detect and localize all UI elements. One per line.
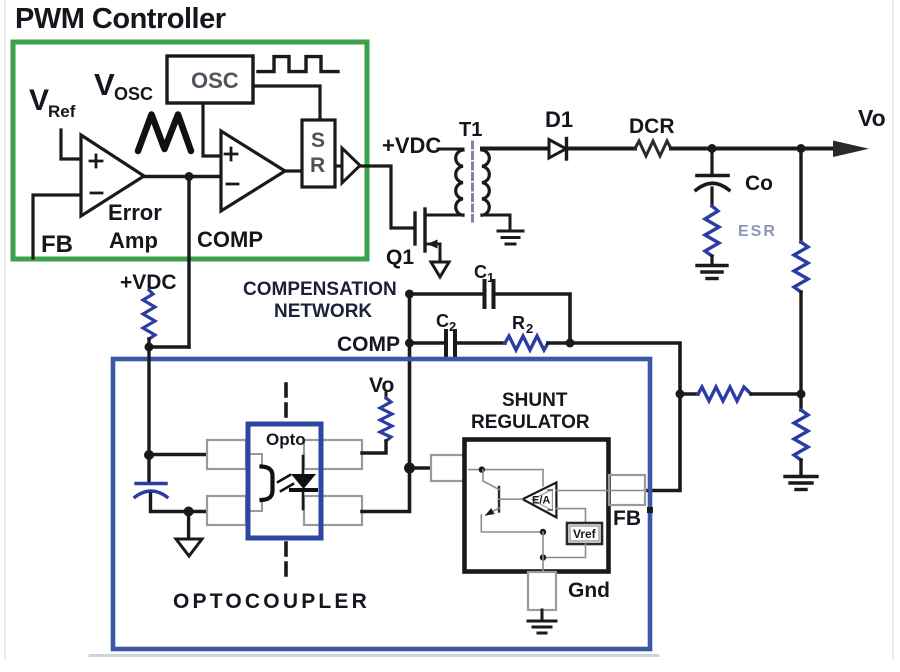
dashed line above opto — [284, 384, 288, 421]
svg-text:V: V — [29, 84, 49, 117]
wire C2 to R2 — [457, 341, 505, 344]
label C2 — [436, 311, 456, 334]
wire buffer to Q1 gate — [360, 166, 414, 228]
svg-text:ESR: ESR — [738, 223, 777, 240]
resistor +VDC bias — [143, 290, 155, 339]
svg-text:V: V — [94, 67, 115, 102]
LED opto — [302, 456, 305, 474]
capacitor Co — [697, 174, 728, 178]
wire lower divider to ground — [799, 460, 802, 475]
wire C1 right — [496, 294, 570, 343]
node FB wire dot — [647, 507, 653, 513]
label R2 — [512, 313, 533, 336]
wire pin1 inner lead — [246, 454, 262, 467]
transformer T1 secondary winding — [482, 150, 489, 215]
wire capacitor to ground node — [151, 494, 189, 512]
internal top rail — [469, 469, 543, 471]
wire node to shunt input pin — [410, 466, 432, 469]
node internal mid — [540, 529, 546, 535]
phototransistor — [262, 467, 273, 501]
svg-text:Ref: Ref — [48, 102, 76, 121]
op-amp EA — [523, 483, 557, 518]
svg-text:FB: FB — [41, 231, 73, 258]
svg-text:S: S — [311, 129, 325, 152]
svg-text:FB: FB — [613, 507, 641, 530]
svg-text:NETWORK: NETWORK — [274, 301, 372, 322]
wire COMP node down — [187, 177, 190, 348]
opto pin 1 upper left — [207, 440, 246, 469]
node C1 top junction — [405, 290, 414, 299]
wire S R latch to buffer — [335, 164, 342, 167]
PWM controller green box — [13, 42, 367, 259]
transistor Q1 MOSFET — [415, 209, 425, 251]
wire COMP to C2 — [410, 341, 444, 344]
opto package box — [248, 424, 321, 538]
wire D1 to DCR — [566, 147, 635, 151]
ground open triangle opto — [176, 539, 202, 556]
wire +VDC to T1 primary — [438, 148, 463, 151]
svg-text:REGULATOR: REGULATOR — [471, 412, 590, 433]
svg-text:OSC: OSC — [191, 68, 239, 93]
Q1 source arrow — [427, 243, 440, 246]
svg-text:Q1: Q1 — [386, 246, 414, 269]
wire node down and to opto pin 4 — [362, 468, 410, 512]
wire T1 secondary bottom to ground — [482, 215, 510, 230]
wire divider resistor to right rail — [751, 392, 801, 395]
wire T1 secondary to D1 — [482, 147, 549, 151]
wire FB net down from divider junction — [648, 394, 680, 491]
node divider junction top — [797, 144, 806, 153]
wire ESR to ground — [710, 256, 713, 264]
resistor Vo pullup — [385, 393, 388, 398]
buffer gate driver — [342, 148, 360, 183]
ground shunt — [528, 621, 556, 633]
svg-text:Amp: Amp — [109, 228, 158, 253]
oscillator box OSC — [167, 56, 253, 103]
ground T1 secondary — [498, 231, 523, 244]
svg-text:Opto: Opto — [266, 430, 306, 449]
resistor ESR — [705, 206, 719, 256]
op-amp comparator — [221, 131, 285, 211]
label COMPENSATION NETWORK — [243, 279, 397, 322]
wire OSC bottom to comparator + input — [203, 104, 221, 156]
label SHUNT REGULATOR — [471, 390, 590, 433]
resistor divider feed horizontal — [698, 387, 751, 401]
ground Q1 open triangle — [431, 262, 449, 277]
svg-text:T1: T1 — [459, 119, 482, 141]
wire node to opto pin 1 — [149, 453, 207, 456]
Gnd pin — [528, 572, 556, 610]
wire VRef to error amp + input — [61, 130, 81, 159]
Vref box — [567, 523, 602, 544]
wire error amp output to comparator with COMP node — [144, 175, 221, 178]
internal emitter wire — [481, 515, 543, 532]
wire Gnd pin to ground — [541, 610, 544, 620]
internal EA output to FB pin — [556, 490, 645, 492]
wire FB to error amp - input — [33, 195, 81, 258]
svg-text:C: C — [436, 311, 449, 331]
wire bias node down into opto box — [147, 347, 150, 455]
wire Co to ESR — [710, 188, 713, 206]
svg-text:Gnd: Gnd — [568, 579, 610, 602]
wire COMP line joins bias node — [149, 345, 189, 348]
svg-text:2: 2 — [526, 321, 533, 336]
optocoupler blue outer box — [113, 359, 650, 649]
node anode junction — [144, 450, 154, 460]
wire junction to divider resistor — [680, 392, 698, 395]
wire junction down to lower divider — [799, 394, 802, 410]
wire junction to Co — [710, 149, 713, 175]
svg-text:PWM Controller: PWM Controller — [15, 3, 226, 35]
transformer T1 primary winding — [456, 150, 463, 215]
node R2 C1 junction — [566, 339, 575, 348]
S R latch box — [302, 120, 335, 187]
label VOSC — [94, 67, 153, 104]
internal gnd stem — [542, 532, 544, 572]
diode D1 — [549, 140, 566, 159]
svg-text:E/A: E/A — [532, 495, 550, 507]
light rays — [278, 475, 293, 491]
FB pin — [609, 475, 645, 505]
internal wire rail to EA minus — [542, 470, 544, 486]
label Error Amp — [108, 200, 162, 253]
transformer T1 core — [471, 142, 474, 221]
svg-text:R: R — [310, 154, 325, 177]
ground divider — [785, 477, 817, 490]
svg-text:Vo: Vo — [369, 374, 394, 397]
capacitor C1 — [485, 281, 494, 307]
output arrow Vo — [833, 141, 869, 158]
svg-text:DCR: DCR — [629, 115, 675, 138]
shunt input pin — [431, 455, 465, 481]
wire DCR to output rail — [671, 147, 836, 151]
node Co junction — [708, 144, 717, 153]
svg-text:COMPENSATION: COMPENSATION — [243, 279, 397, 300]
internal Vref bottom wire — [543, 544, 586, 558]
resistor divider lower — [794, 410, 808, 460]
svg-text:OSC: OSC — [114, 84, 153, 104]
wire node to opto pin 2 — [189, 510, 207, 513]
node divider mid junction right — [797, 390, 806, 399]
wire comparator to S R latch — [285, 169, 302, 172]
triangle waveform icon — [138, 115, 191, 152]
wire COMP net vertical node — [404, 463, 415, 474]
svg-text:COMP: COMP — [337, 333, 400, 356]
opto pin 4 lower right — [304, 496, 362, 525]
opto pin 3 upper right — [304, 440, 362, 469]
resistor divider upper — [794, 242, 808, 292]
wire divider upper to junction — [799, 292, 802, 394]
node bias junction — [145, 343, 154, 352]
capacitor opto filter — [136, 482, 166, 485]
wire Vo resistor to opto pin 3 — [362, 441, 386, 453]
node internal bottom — [540, 554, 546, 560]
wire C1 left — [410, 292, 482, 296]
svg-text:Vref: Vref — [573, 527, 597, 541]
wire OSC right to S R latch — [253, 86, 320, 120]
internal EA plus branch to Vref — [556, 509, 585, 523]
svg-text:Co: Co — [745, 172, 773, 195]
node COMP lower junction — [405, 339, 414, 348]
label VRef — [29, 84, 76, 121]
wire pin2 inner lead — [246, 499, 262, 511]
wire Q1 source down — [439, 244, 442, 261]
resistor R2 — [505, 336, 548, 350]
wire COMP net down to opto — [408, 294, 412, 468]
svg-text:Error: Error — [108, 200, 162, 225]
svg-text:R: R — [512, 313, 525, 333]
wire node down to capacitor — [147, 455, 150, 482]
wire Q1 drain to T1 primary — [425, 214, 463, 217]
opto pin 2 lower left — [207, 496, 246, 525]
resistor DCR — [635, 141, 671, 156]
capacitor C2 — [446, 331, 455, 355]
svg-text:D1: D1 — [545, 107, 573, 132]
wire output rail down right side — [799, 149, 802, 243]
svg-text:SHUNT: SHUNT — [502, 390, 568, 411]
internal transistor — [498, 487, 500, 512]
wire ground stem — [187, 512, 190, 539]
node internal top — [479, 466, 485, 472]
svg-text:COMP: COMP — [197, 227, 263, 252]
square wave icon — [258, 57, 338, 72]
node divider mid junction left — [676, 390, 685, 399]
wire R2 junction right and down — [548, 343, 680, 394]
label C1 — [474, 262, 494, 285]
op-amp error amp — [81, 135, 144, 216]
node cathode junction — [184, 507, 194, 517]
dashed line below opto — [284, 543, 288, 580]
shunt regulator box — [465, 440, 609, 572]
svg-text:Vo: Vo — [858, 105, 886, 131]
node COMP junction dot — [185, 172, 194, 181]
svg-text:OPTOCOUPLER: OPTOCOUPLER — [173, 590, 370, 613]
wire bias resistor to node — [147, 339, 150, 347]
svg-text:+VDC: +VDC — [382, 133, 441, 158]
ground ESR — [697, 266, 727, 279]
internal EA output to base — [499, 498, 523, 500]
